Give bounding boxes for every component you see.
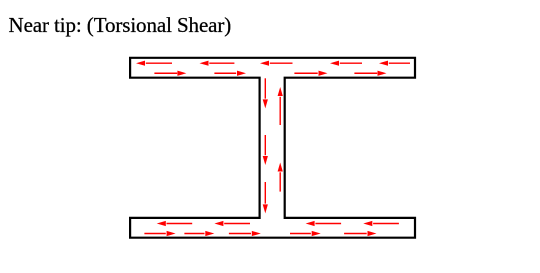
bottom flange upper shear arrow 2 (leftward) <box>214 221 250 226</box>
top flange upper shear arrow 4 (leftward) <box>330 61 362 66</box>
top flange upper shear arrow 3 (leftward) <box>260 61 293 66</box>
web right shear arrow 2 (upward) <box>278 163 283 192</box>
web left shear arrow 2 (downward) <box>263 135 268 165</box>
top flange lower shear arrow 2 (rightward) <box>214 71 246 76</box>
top flange lower shear arrow 1 (rightward) <box>154 71 186 76</box>
top flange upper shear arrow 2 (leftward) <box>200 61 235 66</box>
top flange upper shear arrow 5 (leftward) <box>379 61 410 66</box>
bottom flange lower shear arrow 1 (rightward) <box>144 231 175 236</box>
I-beam cross-section outline <box>130 58 415 238</box>
bottom flange upper shear arrow 1 (leftward) <box>157 221 193 226</box>
web left shear arrow 3 (downward) <box>263 182 268 213</box>
bottom flange lower shear arrow 3 (rightward) <box>229 231 261 236</box>
bottom flange lower shear arrow 2 (rightward) <box>184 231 214 236</box>
bottom flange lower shear arrow 4 (rightward) <box>290 231 321 236</box>
top flange upper shear arrow 1 (leftward) <box>136 61 172 66</box>
bottom flange upper shear arrow 3 (leftward) <box>306 221 342 226</box>
web right shear arrow 1 (upward) <box>278 87 283 125</box>
bottom flange upper shear arrow 4 (leftward) <box>363 221 399 226</box>
svg-text:Near tip: (Torsional Shear): Near tip: (Torsional Shear) <box>9 13 232 37</box>
web left shear arrow 1 (downward) <box>263 78 268 108</box>
top flange lower shear arrow 4 (rightward) <box>354 71 386 76</box>
bottom flange lower shear arrow 5 (rightward) <box>344 231 376 236</box>
top flange lower shear arrow 3 (rightward) <box>294 71 327 76</box>
